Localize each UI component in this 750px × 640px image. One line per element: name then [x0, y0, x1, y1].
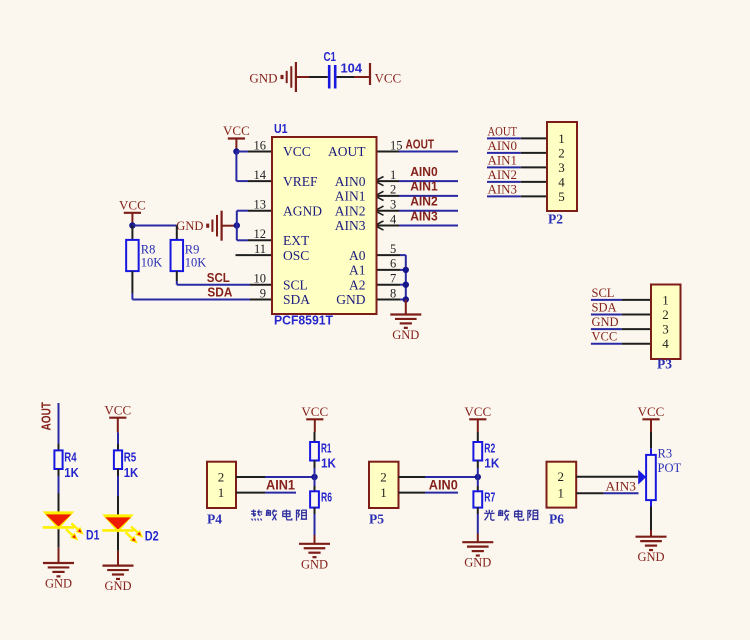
svg-text:4: 4: [558, 174, 565, 189]
svg-text:AOUT: AOUT: [488, 124, 518, 138]
svg-text:D1: D1: [86, 528, 100, 543]
svg-text:R2: R2: [484, 440, 495, 455]
svg-text:GND: GND: [464, 556, 491, 570]
svg-text:11: 11: [254, 242, 266, 256]
svg-text:VCC: VCC: [119, 197, 146, 212]
svg-text:1K: 1K: [321, 456, 337, 471]
svg-text:SCL: SCL: [592, 286, 615, 300]
svg-text:P5: P5: [369, 512, 384, 527]
svg-text:AIN0: AIN0: [429, 477, 458, 492]
svg-text:GND: GND: [637, 550, 664, 564]
svg-text:10: 10: [254, 272, 267, 286]
svg-text:1K: 1K: [484, 456, 500, 471]
svg-text:AIN1: AIN1: [266, 477, 295, 492]
svg-text:R6: R6: [321, 490, 332, 505]
svg-text:OSC: OSC: [283, 248, 309, 263]
svg-text:9: 9: [260, 286, 266, 300]
svg-text:5: 5: [558, 189, 565, 204]
svg-text:P6: P6: [549, 512, 564, 527]
svg-text:GND: GND: [104, 579, 131, 593]
svg-text:1K: 1K: [64, 465, 79, 480]
svg-text:2: 2: [662, 307, 669, 322]
svg-text:A1: A1: [349, 263, 366, 278]
svg-text:3: 3: [662, 322, 669, 337]
svg-text:1: 1: [380, 485, 387, 500]
svg-text:AIN0: AIN0: [410, 164, 438, 179]
svg-text:3: 3: [390, 198, 396, 212]
svg-text:VCC: VCC: [301, 404, 328, 419]
svg-text:GND: GND: [392, 328, 419, 342]
svg-text:AIN2: AIN2: [488, 168, 518, 182]
svg-text:7: 7: [390, 272, 396, 286]
svg-text:AIN0: AIN0: [488, 139, 518, 153]
svg-text:VREF: VREF: [283, 174, 318, 189]
svg-text:AOUT: AOUT: [39, 402, 54, 431]
svg-text:AIN0: AIN0: [335, 174, 366, 189]
svg-text:P2: P2: [548, 212, 563, 227]
svg-text:AIN3: AIN3: [606, 479, 637, 493]
svg-text:5: 5: [390, 242, 396, 256]
svg-text:U1: U1: [274, 121, 288, 136]
svg-text:6: 6: [390, 257, 396, 271]
svg-text:2: 2: [380, 469, 387, 484]
svg-text:R7: R7: [484, 490, 495, 505]
svg-text:1K: 1K: [124, 465, 139, 480]
svg-text:VCC: VCC: [638, 404, 665, 419]
svg-text:10K: 10K: [141, 256, 163, 270]
svg-text:1: 1: [390, 168, 396, 182]
svg-text:VCC: VCC: [104, 402, 131, 417]
svg-text:A2: A2: [349, 277, 366, 292]
svg-text:1: 1: [558, 485, 565, 500]
svg-text:SCL: SCL: [207, 271, 230, 285]
svg-text:10K: 10K: [185, 256, 207, 270]
svg-text:R4: R4: [64, 449, 77, 464]
svg-text:POT: POT: [658, 461, 682, 475]
svg-text:2: 2: [218, 469, 225, 484]
svg-text:AIN3: AIN3: [488, 182, 518, 196]
svg-text:1: 1: [218, 485, 225, 500]
svg-text:4: 4: [662, 336, 669, 351]
svg-text:8: 8: [390, 286, 396, 300]
svg-text:4: 4: [390, 212, 397, 226]
svg-text:AIN2: AIN2: [410, 194, 438, 209]
svg-text:104: 104: [341, 60, 363, 75]
svg-text:2: 2: [558, 145, 565, 160]
svg-text:GND: GND: [249, 70, 277, 85]
svg-text:12: 12: [254, 227, 267, 241]
svg-text:AIN3: AIN3: [335, 218, 366, 233]
svg-text:AIN1: AIN1: [410, 179, 438, 194]
svg-text:2: 2: [390, 183, 396, 197]
svg-text:14: 14: [254, 168, 267, 182]
svg-text:R8: R8: [141, 243, 156, 257]
svg-text:AIN2: AIN2: [335, 203, 366, 218]
svg-text:2: 2: [558, 469, 565, 484]
svg-text:R5: R5: [124, 449, 137, 464]
svg-text:P4: P4: [207, 512, 222, 527]
svg-text:R1: R1: [321, 440, 332, 455]
svg-text:GND: GND: [176, 219, 203, 233]
svg-text:VCC: VCC: [375, 70, 402, 85]
svg-text:GND: GND: [45, 577, 72, 591]
svg-text:GND: GND: [301, 557, 328, 571]
svg-text:1: 1: [558, 131, 565, 146]
svg-text:VCC: VCC: [223, 123, 250, 138]
svg-text:SDA: SDA: [592, 301, 617, 315]
svg-text:SCL: SCL: [283, 277, 308, 292]
svg-text:AIN1: AIN1: [488, 153, 518, 167]
svg-text:C1: C1: [324, 49, 337, 64]
svg-text:15: 15: [390, 138, 403, 152]
svg-text:AOUT: AOUT: [406, 137, 435, 152]
svg-text:16: 16: [254, 138, 267, 152]
svg-text:1: 1: [662, 292, 669, 307]
svg-text:EXT: EXT: [283, 233, 310, 248]
svg-text:3: 3: [558, 160, 565, 175]
svg-text:AOUT: AOUT: [328, 144, 366, 159]
svg-text:SDA: SDA: [283, 292, 310, 307]
svg-text:PCF8591T: PCF8591T: [274, 313, 333, 328]
svg-text:GND: GND: [592, 315, 619, 329]
svg-text:GND: GND: [336, 292, 365, 307]
svg-text:AGND: AGND: [283, 203, 322, 218]
svg-text:VCC: VCC: [592, 330, 618, 344]
svg-text:A0: A0: [349, 248, 366, 263]
svg-text:R3: R3: [658, 447, 673, 461]
svg-text:VCC: VCC: [464, 404, 491, 419]
svg-text:AIN3: AIN3: [410, 208, 438, 223]
svg-text:VCC: VCC: [283, 144, 311, 159]
svg-text:AIN1: AIN1: [335, 189, 366, 204]
svg-text:P3: P3: [657, 357, 672, 372]
svg-text:13: 13: [254, 198, 267, 212]
svg-text:SDA: SDA: [207, 286, 232, 300]
svg-text:D2: D2: [145, 529, 159, 544]
svg-text:R9: R9: [185, 243, 200, 257]
